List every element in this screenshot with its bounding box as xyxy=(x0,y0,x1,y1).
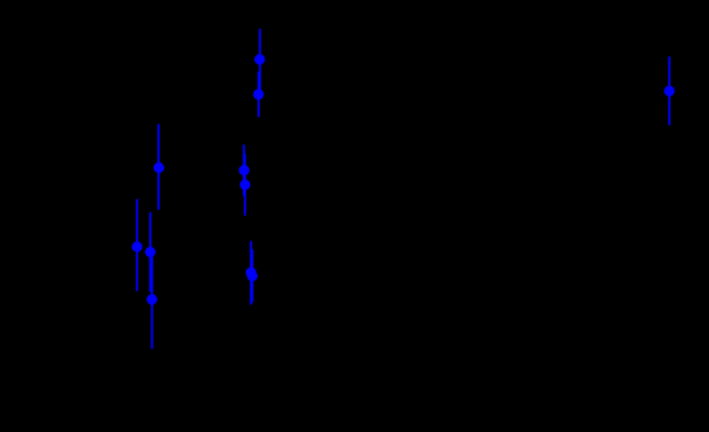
point P11 xyxy=(664,86,675,97)
errorbar P8 xyxy=(151,250,153,349)
errorbar P1 xyxy=(259,29,261,90)
point P6 xyxy=(132,242,143,253)
point P10 xyxy=(247,271,258,282)
errorbar P11 xyxy=(668,57,670,126)
errorbar P10 xyxy=(251,250,253,303)
point P8 xyxy=(147,294,158,305)
point P5 xyxy=(240,180,251,191)
point P7 xyxy=(145,247,156,258)
point P3 xyxy=(154,162,165,173)
errorbar P5 xyxy=(244,154,246,216)
errorbar P3 xyxy=(157,124,159,210)
point P4 xyxy=(239,165,250,176)
errorbar P9 xyxy=(250,241,252,305)
point P9 xyxy=(246,267,257,278)
errorbar P2 xyxy=(258,72,260,117)
errorbar P6 xyxy=(136,199,138,291)
errorbar P7 xyxy=(149,212,151,292)
point P2 xyxy=(253,89,264,100)
errorbar P4 xyxy=(243,145,245,196)
point P1 xyxy=(254,54,265,65)
